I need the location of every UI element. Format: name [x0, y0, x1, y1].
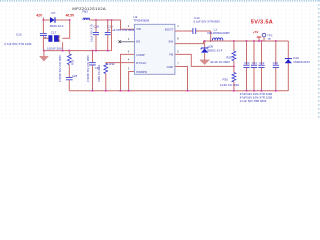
svg-text:PWRPD: PWRPD — [136, 70, 147, 74]
TVS diode D10 — [285, 58, 292, 60]
output rail — [204, 40, 289, 42]
wire COMP pin drop — [121, 54, 135, 90]
diode D7 — [50, 17, 55, 23]
svg-text:C26: C26 — [72, 74, 78, 78]
junction FB node — [233, 65, 235, 67]
resistor R29 — [232, 51, 236, 61]
svg-text:D7: D7 — [52, 11, 56, 15]
svg-text:VIN: VIN — [136, 27, 141, 31]
junction C27 top — [92, 50, 94, 52]
svg-text:C19: C19 — [107, 24, 113, 28]
junction R29 top — [233, 40, 235, 42]
wire PWRPD to bottom rail — [129, 72, 135, 91]
svg-text:0.1uF 50V X5R 0603: 0.1uF 50V X5R 0603 — [240, 99, 267, 103]
svg-text:CML0606H100MT: CML0606H100MT — [207, 31, 230, 35]
svg-text:EN: EN — [136, 40, 140, 44]
svg-text:C16: C16 — [16, 32, 22, 36]
junction D8 — [204, 40, 206, 42]
ferrite bead FB2 — [83, 18, 90, 20]
op-amp U2 TPS54360B regulator — [134, 24, 175, 74]
wire GND pin to bottom rail — [175, 67, 188, 91]
svg-text:C20: C20 — [244, 61, 250, 65]
wire rail to D10 — [287, 41, 289, 59]
junction 40.5V node — [69, 19, 71, 21]
svg-text:92.4K 1% 0603: 92.4K 1% 0603 — [211, 60, 231, 64]
capacitor C29 — [275, 40, 277, 42]
capacitor C20 — [246, 40, 248, 42]
wire SW — [175, 41, 204, 44]
diode D8 — [201, 47, 208, 49]
wire C26 to bottom rail — [68, 80, 70, 91]
svg-text:FB2: FB2 — [82, 9, 88, 13]
svg-text:FB: FB — [169, 53, 173, 57]
wire C14 to SW rail — [196, 31, 211, 41]
wire R32 to bottom rail — [105, 74, 107, 91]
capacitor C21 — [253, 40, 255, 42]
wire gnd rail to R26 — [68, 51, 70, 54]
wire D7 to 40.5V node — [56, 19, 70, 21]
svg-text:BOOT: BOOT — [165, 27, 173, 31]
wire C17 left lead — [43, 37, 48, 39]
wire 42V node to C16 — [42, 17, 44, 33]
svg-text:C18: C18 — [94, 24, 100, 28]
wire +5V stub — [258, 37, 260, 41]
svg-text:5V/3.5A: 5V/3.5A — [251, 20, 273, 26]
svg-text:316K 1% 0603: 316K 1% 0603 — [97, 64, 101, 82]
svg-text:4700PF 50V X7R 0805: 4700PF 50V X7R 0805 — [58, 55, 62, 82]
svg-text:0.1uF 50V X7R 0603: 0.1uF 50V X7R 0603 — [194, 19, 221, 23]
svg-text:C29: C29 — [273, 61, 279, 65]
junction C18 top — [95, 19, 97, 21]
bottom ground rail — [69, 90, 288, 92]
wire gnd rail to C27 — [92, 51, 94, 63]
capacitor C19 — [107, 20, 109, 32]
wire R30 to bottom rail — [233, 82, 235, 91]
svg-text:TP: TP — [267, 37, 271, 41]
wire BOOT to C14 — [175, 30, 193, 32]
sheet border right — [318, 0, 320, 118]
wire C27 to bottom rail — [92, 65, 94, 91]
ground / comp upper rail — [43, 50, 111, 52]
wire to ground symbol — [43, 51, 45, 57]
svg-text:MPZ2012S102A: MPZ2012S102A — [72, 6, 106, 11]
ground symbol input — [40, 56, 49, 61]
resistor R32 — [104, 63, 108, 73]
svg-text:TPS54360B: TPS54360B — [133, 18, 149, 22]
no-connect marker EN pin — [119, 40, 122, 43]
wire C17 gnd stub — [62, 42, 64, 50]
wire SW to D8 — [204, 41, 206, 48]
svg-text:R29: R29 — [226, 55, 232, 59]
wire to D7 anode — [43, 19, 50, 21]
ground symbol D8 — [200, 60, 210, 65]
capacitor C27 — [89, 63, 96, 65]
svg-text:C21: C21 — [252, 61, 258, 65]
svg-text:GND: GND — [167, 65, 173, 69]
svg-text:40.5V: 40.5V — [66, 14, 75, 18]
wire FB2 to VIN pin — [90, 20, 135, 29]
wire FB — [175, 54, 234, 66]
svg-text:R26: R26 — [71, 59, 75, 65]
wire 40.5V node to C17 — [62, 20, 69, 38]
junction gnd drop top — [111, 19, 113, 21]
svg-text:42V: 42V — [36, 14, 43, 18]
svg-text:B160-13-F: B160-13-F — [50, 24, 64, 28]
svg-text:RT/CLK: RT/CLK — [136, 61, 146, 65]
test point TP3 — [263, 37, 265, 41]
svg-text:100UF 50V: 100UF 50V — [47, 46, 62, 50]
capacitor C14 — [193, 28, 196, 34]
wire rail drop to gnd rail — [111, 20, 113, 51]
junction C19 top — [107, 19, 109, 21]
resistor R30 — [232, 73, 236, 83]
svg-text:0.1uF 50V X7R 0603: 0.1uF 50V X7R 0603 — [109, 28, 135, 32]
capacitor C22 — [261, 40, 263, 42]
svg-text:SW: SW — [168, 39, 173, 43]
wire D10 to bottom rail — [287, 63, 289, 91]
junction 42V node — [42, 19, 44, 21]
svg-text:C22: C22 — [259, 61, 265, 65]
svg-text:R32: R32 — [109, 62, 115, 66]
svg-text:B560C-13-F: B560C-13-F — [207, 48, 223, 52]
wire rail to R29 — [233, 41, 235, 51]
wire R26 to C26 — [68, 65, 70, 78]
capacitor C26 — [66, 78, 73, 80]
wire D8 to gnd — [204, 53, 206, 60]
wire RT/CLK to R32 — [106, 62, 135, 65]
svg-text:1SMA5.0AT3: 1SMA5.0AT3 — [293, 60, 310, 64]
svg-text:4700PF 50V X7R 0805: 4700PF 50V X7R 0805 — [86, 55, 90, 82]
inductor L1 — [212, 38, 222, 41]
svg-text:C17: C17 — [51, 31, 57, 35]
wire C16 to gnd rail — [42, 36, 44, 51]
resistor R26 — [67, 54, 71, 65]
svg-text:4.7uF 50V X7R 1206: 4.7uF 50V X7R 1206 — [4, 42, 32, 46]
svg-text:COMP: COMP — [136, 53, 145, 57]
junction boot drop — [210, 40, 212, 42]
svg-text:11.5K 1% 0603: 11.5K 1% 0603 — [220, 83, 239, 87]
svg-text:+5V: +5V — [253, 30, 260, 34]
wire R29 to R30 — [233, 61, 235, 73]
junction R26 top — [68, 50, 70, 52]
sheet border top — [0, 0, 320, 2]
svg-text:R30: R30 — [223, 78, 229, 82]
